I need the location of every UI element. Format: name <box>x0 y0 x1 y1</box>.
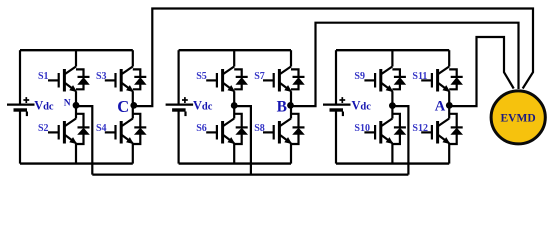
svg-text:S6: S6 <box>196 123 207 134</box>
diode D3 antiparallel with S3 <box>133 69 147 89</box>
svg-text:N: N <box>64 99 71 109</box>
transistor S2 (IGBT) <box>48 106 76 164</box>
svg-text:dc: dc <box>202 101 213 112</box>
cell 3 midpoint junction dot <box>389 102 396 109</box>
diode D2 antiparallel with S2 <box>76 114 90 144</box>
wire top DC rail cell 2 <box>179 49 291 51</box>
wire top DC rail cell 1 <box>20 49 133 51</box>
diode D7 antiparallel with S7 <box>291 69 305 89</box>
node C junction dot <box>130 102 137 109</box>
wire top DC rail cell 3 <box>336 49 449 51</box>
wire bottom DC rail cell 2 <box>179 162 291 164</box>
svg-text:S1: S1 <box>38 71 49 82</box>
wire phase A output to motor <box>450 37 514 106</box>
motor EVMD <box>491 91 545 144</box>
transistor S11 (IGBT) <box>421 50 449 105</box>
transistor S12 (IGBT) <box>421 106 449 164</box>
svg-text:dc: dc <box>43 101 54 112</box>
value label Vdc cell 3 <box>352 98 372 112</box>
svg-text:S12: S12 <box>412 123 428 134</box>
battery Vdc cell 2 <box>166 50 194 163</box>
svg-text:S4: S4 <box>96 123 107 134</box>
svg-text:EVMD: EVMD <box>501 113 536 125</box>
wire phase C output to motor <box>134 9 533 107</box>
transistor S6 (IGBT) <box>206 106 234 164</box>
diode D8 antiparallel with S8 <box>291 114 305 144</box>
transistor S1 (IGBT) <box>48 50 76 105</box>
svg-text:dc: dc <box>360 101 371 112</box>
diode D10 antiparallel with S10 <box>392 114 406 144</box>
svg-text:V: V <box>34 98 43 112</box>
cell 2 midpoint junction dot <box>231 102 238 109</box>
transistor S4 (IGBT) <box>105 106 133 164</box>
svg-text:S8: S8 <box>254 123 265 134</box>
svg-text:S2: S2 <box>38 123 49 134</box>
wire bottom DC rail cell 3 <box>336 162 449 164</box>
svg-text:V: V <box>193 98 202 112</box>
value label Vdc cell 1 <box>34 98 54 112</box>
transistor S5 (IGBT) <box>206 50 234 105</box>
wire bottom DC rail cell 1 <box>20 162 133 164</box>
value label Vdc cell 2 <box>193 98 213 112</box>
transistor S10 (IGBT) <box>364 106 392 164</box>
diode D12 antiparallel with S12 <box>449 114 463 144</box>
transistor S3 (IGBT) <box>105 50 133 105</box>
svg-text:S11: S11 <box>412 71 427 82</box>
svg-text:C: C <box>117 97 129 116</box>
svg-text:S7: S7 <box>254 71 265 82</box>
wire neutral drop from node N cell 1 <box>76 106 92 175</box>
wire neutral drop from midpoint cell 3 <box>392 106 408 175</box>
svg-text:S9: S9 <box>354 71 365 82</box>
svg-text:V: V <box>352 98 361 112</box>
diode D5 antiparallel with S5 <box>234 69 248 89</box>
svg-text:B: B <box>277 98 287 115</box>
diode D4 antiparallel with S4 <box>133 114 147 144</box>
battery Vdc cell 1 <box>7 50 35 163</box>
wire phase B output to motor <box>291 23 519 106</box>
node A junction dot <box>446 102 453 109</box>
node B junction dot <box>287 102 294 109</box>
battery Vdc cell 3 <box>323 50 351 163</box>
svg-text:A: A <box>435 98 446 114</box>
diode D9 antiparallel with S9 <box>392 69 406 89</box>
transistor S9 (IGBT) <box>364 50 392 105</box>
svg-text:S3: S3 <box>96 71 107 82</box>
svg-text:S10: S10 <box>354 123 370 134</box>
wire neutral drop from midpoint cell 2 <box>234 106 251 175</box>
diode D1 antiparallel with S1 <box>76 69 90 89</box>
transistor S7 (IGBT) <box>263 50 291 105</box>
svg-text:S5: S5 <box>196 71 207 82</box>
diode D6 antiparallel with S6 <box>234 114 248 144</box>
node N junction dot <box>73 102 80 109</box>
wire common neutral bus <box>92 174 408 176</box>
transistor S8 (IGBT) <box>263 106 291 164</box>
diode D11 antiparallel with S11 <box>449 69 463 89</box>
